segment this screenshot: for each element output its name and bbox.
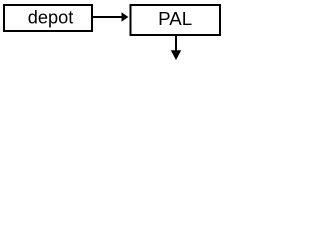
node depot (box)	[4, 5, 92, 31]
svg-text:PAL: PAL	[158, 9, 192, 29]
wire PAL downward (arrow stem)	[175, 35, 177, 51]
arrowhead depot to PAL	[122, 12, 129, 22]
arrowhead PAL downward	[171, 50, 181, 60]
wire depot to PAL (arrow shaft)	[93, 16, 122, 18]
svg-text:depot: depot	[28, 7, 74, 27]
node PAL (box)	[131, 5, 221, 35]
